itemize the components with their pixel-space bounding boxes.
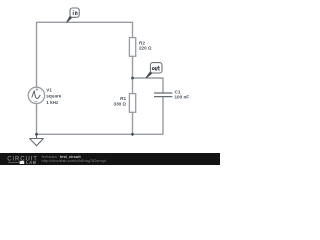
CircuitLab logo white mark (20, 161, 25, 164)
V1 plus sign (36, 88, 39, 91)
capacitor C1 plates (154, 92, 172, 94)
wire out branch to capacitor top (133, 78, 164, 93)
footer bar (0, 153, 220, 165)
wire bottom rail and capacitor bottom stub (37, 97, 164, 135)
junction dot at out node (131, 77, 134, 80)
svg-text:220 Ω: 220 Ω (139, 46, 152, 51)
junction dot at ground node (35, 133, 38, 136)
V1 minus sign (34, 101, 37, 103)
junction dot at R1 bottom (131, 133, 134, 136)
svg-text:square: square (46, 94, 62, 99)
node flag out: leader (146, 71, 153, 78)
node flag in: box (70, 8, 79, 17)
svg-text:http://circuitlab.com/c/b8hag7: http://circuitlab.com/c/b8hag782smqd (42, 158, 106, 163)
wire left branch: V1 top up and across top to right branch (37, 22, 133, 87)
node flag out: box (150, 63, 162, 73)
resistor R1 body (129, 94, 135, 113)
wire R2 bottom to R1 top (middle segment) (132, 56, 134, 93)
svg-text:100 nF: 100 nF (175, 95, 190, 100)
node flag in: leader (66, 16, 72, 23)
svg-text:1 kHz: 1 kHz (46, 100, 59, 105)
voltage source V1 circle (28, 87, 44, 103)
wire V1 bottom to ground junction (36, 104, 38, 135)
ground symbol (36, 134, 38, 138)
V1 waveform glyph (32, 91, 41, 99)
svg-text:LAB: LAB (26, 160, 37, 165)
resistor R2 body (129, 38, 135, 57)
svg-text:V1: V1 (46, 88, 52, 93)
svg-text:330 Ω: 330 Ω (114, 101, 127, 106)
wire R1 bottom to bottom rail (132, 112, 134, 134)
CircuitLab logo dashes (8, 161, 19, 163)
